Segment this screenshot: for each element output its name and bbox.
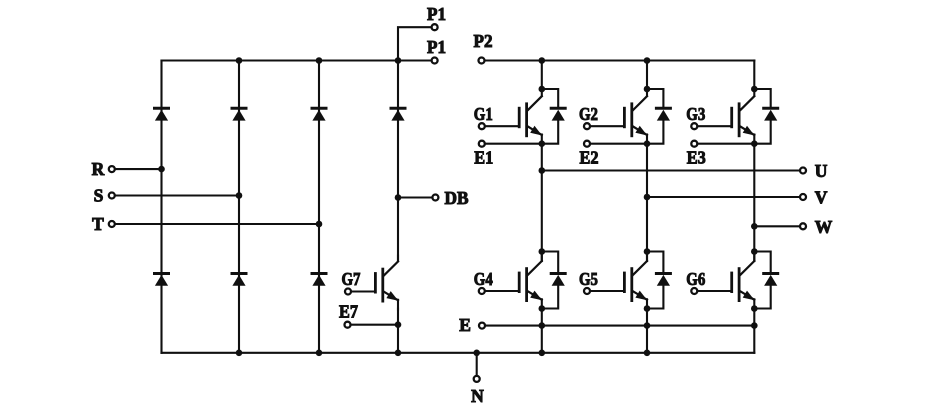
wire: leg A midpoint vertical	[541, 144, 543, 252]
junction: bottom rail / column 3	[316, 350, 323, 357]
junction: leg A high-side collector node	[539, 86, 546, 93]
junction: leg B high-side emitter node	[644, 140, 651, 147]
terminal U	[800, 161, 828, 181]
svg-text:P1: P1	[427, 4, 446, 24]
junction: phase U tap on leg A	[539, 167, 546, 174]
svg-text:E2: E2	[580, 147, 599, 167]
wire: brake IGBT emitter lead to bottom rail	[397, 309, 399, 353]
junction: leg C low-side emitter node	[751, 305, 758, 312]
junction: leg A low-side emitter node	[539, 305, 546, 312]
junction: inverter rail / leg A	[539, 57, 546, 64]
svg-text:P1: P1	[427, 37, 446, 57]
svg-text:U: U	[815, 161, 828, 181]
wire: bottom negative rail	[162, 352, 755, 354]
terminal P1 (on rail)	[427, 37, 446, 63]
junction: common-emitter line / leg A	[539, 322, 546, 329]
terminal P1 (top)	[427, 4, 446, 30]
diode (rectifier top, phase S)	[232, 108, 246, 120]
junction: phase W tap on leg C	[751, 223, 758, 230]
terminal G3	[686, 104, 731, 129]
junction: leg B low-side emitter node	[644, 305, 651, 312]
junction: leg A low-side collector node	[539, 248, 546, 255]
terminal G6	[686, 269, 731, 294]
diode (freewheel of G1)	[551, 108, 565, 120]
svg-text:G3: G3	[686, 104, 705, 124]
IGBT G1 (high side, leg A)	[519, 90, 542, 144]
wire: leg B midpoint vertical	[646, 144, 648, 252]
wire: leg C low-side collector lead	[753, 252, 755, 262]
svg-text:DB: DB	[445, 188, 469, 208]
wire: brake IGBT collector lead	[397, 198, 399, 262]
terminal DB	[398, 188, 469, 208]
wire: phase W output line	[754, 225, 800, 227]
diode (freewheel of G5)	[656, 274, 670, 286]
terminal E2	[580, 141, 648, 168]
wire: rectifier positive rail (top)	[162, 59, 431, 61]
wire: brake column upper vertical	[397, 61, 399, 198]
terminal E1	[474, 141, 542, 168]
terminal E	[459, 315, 485, 335]
terminal N	[471, 353, 484, 406]
terminal G1	[474, 104, 519, 129]
diode (freewheel of G6)	[764, 274, 778, 286]
junction: leg B high-side collector node	[644, 86, 651, 93]
wire: leg C from positive rail to collector node	[753, 61, 755, 90]
terminal T	[92, 214, 319, 234]
wire: phase V output line	[647, 196, 800, 198]
svg-text:E1: E1	[474, 147, 493, 167]
wire: inverter positive rail from P2 to leg C	[485, 59, 755, 61]
svg-text:T: T	[92, 214, 104, 234]
terminal E3	[687, 141, 755, 168]
terminal G5	[579, 269, 624, 294]
svg-text:G5: G5	[579, 269, 598, 289]
terminal P2	[474, 31, 493, 63]
svg-text:P2: P2	[474, 31, 493, 51]
junction: bottom rail / leg A	[539, 350, 546, 357]
diode (freewheel of G2)	[656, 108, 670, 120]
IGBT G3 (high side, leg C)	[732, 90, 755, 144]
wire: rectifier column 1 vertical	[160, 61, 162, 353]
diode (rectifier bottom, phase S)	[232, 274, 246, 286]
wire: leg A emitter to bottom rail	[541, 309, 543, 353]
junction: bottom rail / leg B	[644, 350, 651, 357]
terminal G2	[579, 104, 624, 129]
wire: high-side freewheel diode branch, leg B	[647, 89, 663, 144]
diode (rectifier bottom, phase R)	[155, 274, 169, 286]
svg-text:G4: G4	[474, 269, 493, 289]
wire: rectifier column 3 vertical	[318, 61, 320, 353]
junction: leg B low-side collector node	[644, 248, 651, 255]
wire: rectifier column 2 vertical	[238, 61, 240, 353]
IGBT G5 (low side, leg B)	[624, 255, 647, 309]
wire: leg A low-side collector lead	[541, 252, 543, 262]
svg-text:N: N	[471, 386, 484, 406]
terminal G7	[342, 269, 376, 294]
junction: bottom rail / brake leg	[395, 350, 402, 357]
wire: high-side freewheel diode branch, leg A	[542, 89, 558, 144]
junction: bottom rail / N stub	[473, 350, 480, 357]
junction: phase V tap on leg B	[644, 194, 651, 201]
wire: common emitter line (E)	[485, 325, 754, 327]
svg-text:G7: G7	[342, 269, 361, 289]
diode (rectifier top, phase T)	[312, 108, 326, 120]
wire: high-side freewheel diode branch, leg C	[754, 89, 770, 144]
wire: leg C emitter to bottom rail	[753, 309, 755, 353]
terminal S	[94, 185, 239, 205]
junction: DB node	[395, 194, 402, 201]
junction: phase T input node	[316, 221, 323, 228]
junction: leg C high-side collector node	[751, 86, 758, 93]
svg-text:V: V	[815, 187, 828, 207]
diode (rectifier top, phase R)	[155, 108, 169, 120]
junction: phase R input node	[158, 166, 165, 173]
junction: top rail / column 2	[236, 57, 243, 64]
IGBT G2 (high side, leg B)	[624, 90, 647, 144]
wire: low-side freewheel diode branch, leg A	[542, 252, 558, 309]
diode (freewheel of G3)	[764, 108, 778, 120]
IGBT G6 (low side, leg C)	[732, 255, 755, 309]
junction: common-emitter line / leg C	[751, 322, 758, 329]
svg-text:R: R	[92, 159, 105, 179]
junction: leg A high-side emitter node	[539, 140, 546, 147]
svg-text:W: W	[815, 217, 833, 237]
terminal V	[800, 187, 828, 207]
svg-text:G1: G1	[474, 104, 493, 124]
wire: leg B low-side collector lead	[646, 252, 648, 262]
svg-text:E3: E3	[687, 147, 706, 167]
wire: phase U output line	[542, 169, 800, 171]
wire: leg A from positive rail to collector node	[541, 61, 543, 90]
svg-text:E7: E7	[339, 302, 358, 322]
junction: bottom rail / column 2	[236, 350, 243, 357]
junction: top rail / column 3	[316, 57, 323, 64]
terminal W	[800, 217, 833, 237]
junction: E7 / brake emitter	[395, 321, 402, 328]
junction: common-emitter line / leg B	[644, 322, 651, 329]
wire: leg C midpoint vertical	[753, 144, 755, 252]
wire: stub from rail up to P1 terminal	[398, 27, 431, 60]
svg-text:S: S	[94, 185, 104, 205]
svg-text:E: E	[459, 315, 471, 335]
diode (brake freewheel)	[391, 108, 405, 120]
terminal E7	[339, 302, 398, 328]
junction: inverter rail / leg B	[644, 57, 651, 64]
junction: leg C high-side emitter node	[751, 140, 758, 147]
diode (rectifier bottom, phase T)	[312, 274, 326, 286]
junction: leg C low-side collector node	[751, 248, 758, 255]
wire: leg B emitter to bottom rail	[646, 309, 648, 353]
svg-text:G2: G2	[579, 104, 598, 124]
svg-text:G6: G6	[686, 269, 705, 289]
diode (freewheel of G4)	[551, 274, 565, 286]
IGBT G4 (low side, leg A)	[519, 255, 542, 309]
wire: low-side freewheel diode branch, leg C	[754, 252, 770, 309]
junction: top rail / P1 stub	[395, 57, 402, 64]
terminal R	[92, 159, 162, 179]
IGBT G7 (brake chopper)	[375, 256, 398, 310]
wire: low-side freewheel diode branch, leg B	[647, 252, 663, 309]
junction: phase S input node	[236, 192, 243, 199]
wire: leg B from positive rail to collector node	[646, 61, 648, 90]
terminal G4	[474, 269, 519, 294]
